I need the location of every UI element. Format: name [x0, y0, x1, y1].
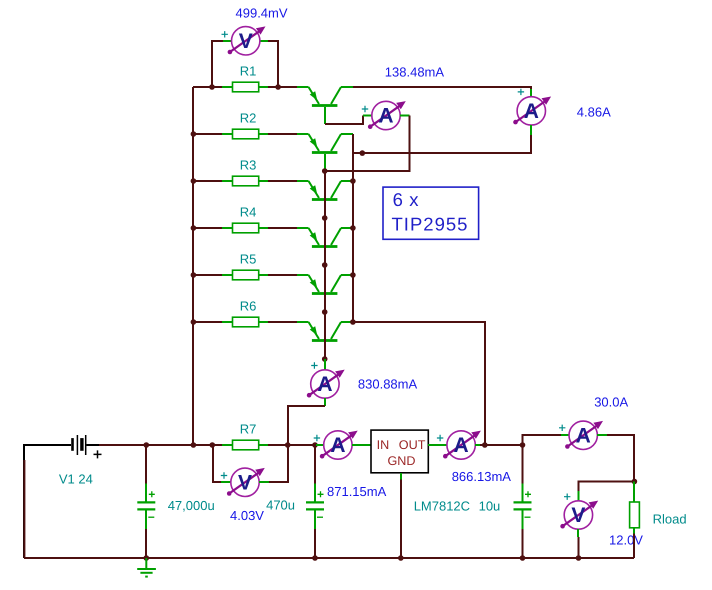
capacitor C2 bottom green stub: [314, 509, 316, 529]
resistor R3 body: [233, 176, 259, 186]
junction dot collector bus y=275: [350, 272, 356, 278]
svg-text:V: V: [239, 30, 253, 53]
transistor Q1 emitter lead: [297, 86, 309, 88]
ammeter AM4 right lead to regulator: [352, 444, 371, 446]
voltmeter VM2 4.03V: [231, 468, 259, 496]
wire left bus to resistor row y=134: [193, 133, 222, 135]
resistor R3 left lead: [222, 180, 233, 182]
resistor R5 right lead: [259, 274, 268, 276]
wire regulator GND to ground rail: [400, 480, 402, 559]
resistor R5 body: [233, 270, 259, 280]
ammeter AM6 left green stub: [561, 434, 569, 436]
capacitor C1 bottom green stub: [145, 509, 147, 529]
capacitor C1 plus sign: [149, 491, 155, 497]
transistor Q3 emitter lead: [297, 180, 309, 182]
voltmeter VM1 left green stub: [223, 40, 231, 42]
capacitor C2 bottom plate: [306, 508, 324, 510]
voltmeter VM3 plus sign: [564, 494, 570, 500]
transistor Q3 emitter diagonal: [309, 181, 320, 198]
transistor Q5 collector diagonal: [331, 275, 341, 292]
junction dot base bus y=218: [322, 215, 328, 221]
resistor R7 right lead: [259, 444, 268, 446]
voltmeter VM3 top green stub: [578, 491, 580, 501]
ammeter AM2 bottom green stub: [530, 125, 532, 135]
ammeter AM3 plus sign: [311, 362, 317, 368]
ammeter AM3 bottom green stub: [324, 398, 326, 406]
svg-text:GND: GND: [388, 454, 416, 468]
wire collector bus to output node: [353, 322, 485, 445]
transistor Q4 collector lead: [341, 227, 353, 229]
base bus vertical wire: [324, 171, 326, 359]
ground symbol: [137, 558, 156, 577]
transistor Q5 base bar: [312, 292, 338, 295]
wire R1 output to Q1 emitter: [268, 86, 297, 88]
voltmeter VM2 left wire: [213, 445, 221, 482]
capacitor C3 top plate: [514, 501, 532, 503]
voltmeter VM1 left wire: [212, 41, 223, 87]
regulator U1 LM7812C box: [371, 430, 428, 473]
transistor Q6 base bar: [312, 339, 338, 342]
svg-text:4.86A: 4.86A: [577, 104, 611, 119]
capacitor C3 top wire: [522, 445, 524, 484]
capacitor C1 top wire: [145, 445, 147, 484]
junction dot base bus y=359: [322, 356, 328, 362]
transistor Q6 collector lead: [341, 321, 353, 323]
ammeter AM1 right green stub: [400, 115, 410, 117]
wire voltmeter VM3 to ground rail: [578, 537, 580, 558]
wire left edge from battery: [24, 445, 64, 558]
voltmeter VM1 right green stub: [260, 40, 268, 42]
wire ammeter AM1 to base bus: [325, 116, 410, 172]
resistor R4 body: [233, 223, 259, 233]
regulator U1 GND pin: [400, 473, 402, 480]
svg-text:V: V: [238, 472, 252, 495]
svg-text:A: A: [330, 434, 345, 457]
transistor Q5 emitter lead: [297, 274, 309, 276]
voltmeter VM2 right wire: [269, 445, 288, 482]
wire output node to ammeter AM6: [523, 435, 562, 445]
junction dot left bus row y=134: [191, 131, 197, 137]
transistor Q3 collector diagonal: [331, 181, 341, 198]
wire R4 output to transistor emitter: [268, 227, 297, 229]
resistor R2 body: [233, 129, 259, 139]
svg-text:R6: R6: [240, 299, 257, 314]
capacitor C2 bottom wire: [314, 529, 316, 558]
wire R3 output to transistor emitter: [268, 180, 297, 182]
ammeter AM4 left green stub: [316, 444, 324, 446]
ammeter AM5 866.13mA: [447, 431, 475, 459]
svg-text:V1 24: V1 24: [59, 471, 93, 486]
transistor Q3 emitter arrow: [310, 185, 318, 194]
wire R7 output to node: [268, 444, 316, 446]
svg-text:TIP2955: TIP2955: [392, 214, 469, 235]
transistor Q2 collector lead: [341, 133, 353, 135]
transistor Q1 collector lead: [341, 86, 353, 88]
voltmeter VM1 right wire: [268, 41, 278, 87]
resistor R2 left lead: [222, 133, 233, 135]
wire left bus to resistor row y=275: [193, 274, 222, 276]
junction dot C1 ground: [144, 555, 150, 561]
transistor Q2 base bar: [312, 151, 338, 154]
transistor Q1 base bar: [312, 104, 338, 107]
wire left bus to resistor row y=228: [193, 227, 222, 229]
svg-text:830.88mA: 830.88mA: [358, 377, 418, 392]
svg-text:871.15mA: 871.15mA: [327, 484, 387, 499]
svg-text:R4: R4: [240, 205, 257, 220]
wire Q1 base to ammeter AM1: [325, 116, 363, 125]
junction dot C2 ground: [312, 555, 318, 561]
capacitor C2 top wire: [314, 445, 316, 484]
svg-text:47,000u: 47,000u: [168, 498, 215, 513]
voltmeter VM3 12.0V: [564, 501, 592, 529]
resistor R7 body: [233, 440, 259, 450]
battery V1 tall plate 2: [85, 435, 87, 455]
ammeter AM1 138.48mA: [372, 101, 400, 129]
capacitor C1 top green stub: [145, 484, 147, 503]
transistor Q3 base pin: [324, 201, 326, 218]
svg-text:A: A: [576, 425, 591, 448]
battery V1 right lead: [87, 444, 100, 446]
ammeter AM2 4.86A: [517, 97, 545, 125]
ammeter AM2 plus sign: [518, 89, 524, 95]
ammeter AM3 top green stub: [324, 359, 326, 370]
ammeter AM2 top green stub: [530, 89, 532, 97]
ammeter AM6 plus sign: [559, 425, 565, 431]
capacitor C2 top plate: [306, 501, 324, 503]
wire left bus to resistor row y=322: [193, 321, 222, 323]
wire R6 output to transistor emitter: [268, 321, 297, 323]
svg-text:A: A: [378, 105, 393, 128]
capacitor C3 bottom wire: [522, 529, 524, 558]
junction dot left bus row y=228: [191, 225, 197, 231]
transistor Q4 emitter diagonal: [309, 228, 320, 245]
capacitor C3 bottom plate: [514, 508, 532, 510]
ammeter AM1 left green stub: [363, 115, 372, 117]
transistor Q1 emitter arrow: [310, 91, 318, 100]
transistor Q4 collector diagonal: [331, 228, 341, 245]
resistor R1 left lead: [222, 86, 233, 88]
transistor Q1 collector diagonal: [331, 87, 341, 104]
transistor Q4 base pin: [324, 248, 326, 265]
battery V1 tall plate 1: [76, 435, 78, 455]
svg-text:OUT: OUT: [399, 438, 426, 452]
junction dot R7 input node: [210, 442, 216, 448]
junction dot regulator ground: [398, 555, 404, 561]
ground rail wire: [24, 557, 634, 559]
wire battery to R7 node: [99, 444, 222, 446]
capacitor C1 bottom wire: [145, 529, 147, 558]
transistor Q6 emitter lead: [297, 321, 309, 323]
capacitor C3 bottom green stub: [522, 509, 524, 529]
junction dot base bus y=171: [322, 168, 328, 174]
capacitor C3 top green stub: [522, 484, 524, 503]
annotation box 6 x TIP2955: [383, 187, 479, 239]
transistor Q2 emitter lead: [297, 133, 309, 135]
transistor Q6 collector diagonal: [331, 322, 341, 339]
resistor R6 body: [233, 317, 259, 327]
ammeter AM6 30.0A: [569, 421, 597, 449]
ammeter AM3 830.88mA: [311, 370, 339, 398]
svg-text:A: A: [317, 373, 332, 396]
transistor Q6 base pin: [324, 342, 326, 359]
transistor Q3 collector lead: [341, 180, 353, 182]
capacitor C1 minus sign: [148, 516, 154, 518]
resistor R1 right lead: [259, 86, 268, 88]
svg-text:138.48mA: 138.48mA: [385, 65, 445, 80]
voltmeter VM3 bottom green stub: [577, 529, 579, 537]
junction dot collector bus y=181: [350, 178, 356, 184]
resistor Rload top lead: [633, 482, 635, 503]
svg-text:499.4mV: 499.4mV: [236, 6, 288, 21]
transistor Q5 base pin: [324, 295, 326, 312]
ammeter AM5 right green stub: [475, 444, 480, 446]
junction dot R7 output node: [285, 442, 291, 448]
junction dot collector return: [360, 150, 366, 156]
ammeter AM6 right green stub: [597, 434, 607, 436]
wire ammeter AM3 to R7 output node: [288, 406, 325, 445]
junction dot base bus y=265: [322, 262, 328, 268]
svg-text:A: A: [454, 434, 469, 457]
svg-text:R1: R1: [240, 64, 257, 79]
ammeter AM4 871.15mA: [324, 431, 352, 459]
capacitor C2 plus sign: [318, 491, 324, 497]
wire R2 output to transistor emitter: [268, 133, 297, 135]
battery V1 left lead: [64, 444, 71, 446]
resistor Rload body: [630, 502, 640, 528]
transistor Q1 emitter diagonal: [309, 87, 320, 104]
wire ammeter AM6 to load node: [607, 435, 634, 482]
transistor Q6 emitter diagonal: [309, 322, 320, 339]
resistor R3 right lead: [259, 180, 268, 182]
transistor Q2 emitter diagonal: [309, 134, 320, 151]
junction dot R1 left node: [209, 84, 215, 90]
svg-text:LM7812C: LM7812C: [414, 499, 470, 514]
svg-text:30.0A: 30.0A: [594, 394, 628, 409]
junction dot C2 branch: [312, 442, 318, 448]
junction dot left bus row y=275: [191, 272, 197, 278]
svg-text:R2: R2: [240, 111, 257, 126]
ammeter AM4 plus sign: [314, 435, 320, 441]
junction dot C3 branch: [520, 442, 526, 448]
junction dot voltmeter VM3 ground: [576, 555, 582, 561]
svg-text:V: V: [571, 504, 585, 527]
junction dot left bus row y=181: [191, 178, 197, 184]
voltmeter VM2 plus sign: [221, 472, 227, 478]
collector bus vertical wire: [352, 134, 354, 322]
svg-text:470u: 470u: [266, 498, 295, 513]
transistor Q5 collector lead: [341, 274, 353, 276]
resistor R7 left lead: [222, 444, 233, 446]
transistor Q4 base bar: [312, 245, 338, 248]
transistor Q3 base bar: [312, 198, 338, 201]
capacitor C2 minus sign: [317, 516, 323, 518]
transistor Q4 emitter lead: [297, 227, 309, 229]
voltmeter VM2 right green stub: [259, 481, 269, 483]
wire left bus to resistor row y=87: [193, 86, 222, 88]
resistor R4 right lead: [259, 227, 268, 229]
battery V1 short plate 2: [80, 438, 83, 451]
capacitor C1 top plate: [137, 501, 155, 503]
voltmeter VM1: [232, 27, 260, 55]
svg-text:866.13mA: 866.13mA: [452, 469, 512, 484]
transistor Q2 base pin: [324, 154, 326, 171]
transistor Q1 base pin: [324, 107, 326, 124]
wire left bus to resistor row y=181: [193, 180, 222, 182]
svg-text:12.0V: 12.0V: [609, 533, 643, 548]
transistor Q2 emitter arrow: [310, 138, 318, 147]
capacitor C3 minus sign: [525, 516, 531, 518]
junction dot left bus bottom: [191, 442, 197, 448]
wire load node to voltmeter VM3: [579, 482, 635, 492]
transistor Q2 collector diagonal: [331, 134, 341, 151]
resistor R1 body: [233, 82, 259, 92]
junction dot R1 right node: [275, 84, 281, 90]
svg-text:A: A: [524, 100, 539, 123]
svg-text:4.03V: 4.03V: [230, 508, 264, 523]
resistor R5 left lead: [222, 274, 233, 276]
transistor Q5 emitter diagonal: [309, 275, 320, 292]
ammeter AM1 plus sign: [362, 106, 368, 112]
wire R5 output to transistor emitter: [268, 274, 297, 276]
voltmeter VM2 left green stub: [221, 481, 231, 483]
junction dot left bus row y=322: [191, 319, 197, 325]
svg-text:Rload: Rload: [653, 511, 687, 526]
capacitor C1 bottom plate: [137, 508, 155, 510]
capacitor C2 top green stub: [314, 484, 316, 503]
resistor R6 right lead: [259, 321, 268, 323]
junction dot output node: [482, 442, 488, 448]
battery V1 plus sign: [94, 450, 102, 458]
junction dot collector bus y=228: [350, 225, 356, 231]
ammeter AM5 plus sign: [437, 435, 443, 441]
junction dot collector bus y=322: [350, 319, 356, 325]
voltmeter VM1 plus sign: [222, 31, 228, 37]
wire Rload to ground rail: [633, 534, 635, 559]
svg-text:10u: 10u: [479, 499, 501, 514]
svg-text:IN: IN: [377, 438, 390, 452]
left supply bus vertical wire: [192, 87, 194, 445]
resistor Rload bottom lead: [633, 528, 635, 534]
resistor R2 right lead: [259, 133, 268, 135]
svg-text:R7: R7: [240, 422, 257, 437]
battery V1 short plate 1: [71, 438, 74, 451]
regulator U1 OUT lead to ammeter AM5: [428, 444, 447, 446]
resistor R4 left lead: [222, 227, 233, 229]
wire ammeter AM5 to output node: [480, 444, 523, 446]
wire ammeter AM2 return to collector bus: [353, 135, 531, 153]
wire Q1 collector to ammeter AM2: [353, 87, 531, 89]
svg-text:R3: R3: [240, 158, 257, 173]
svg-text:6 x: 6 x: [393, 189, 420, 210]
transistor Q5 emitter arrow: [310, 279, 318, 288]
junction dot load node: [632, 479, 638, 485]
svg-text:R5: R5: [240, 252, 257, 267]
capacitor C3 plus sign: [525, 491, 531, 497]
transistor Q6 emitter arrow: [310, 326, 318, 335]
junction dot C3 ground: [520, 555, 526, 561]
transistor Q4 emitter arrow: [310, 232, 318, 241]
junction dot base bus y=312: [322, 309, 328, 315]
resistor R6 left lead: [222, 321, 233, 323]
junction dot C1 branch: [144, 442, 150, 448]
